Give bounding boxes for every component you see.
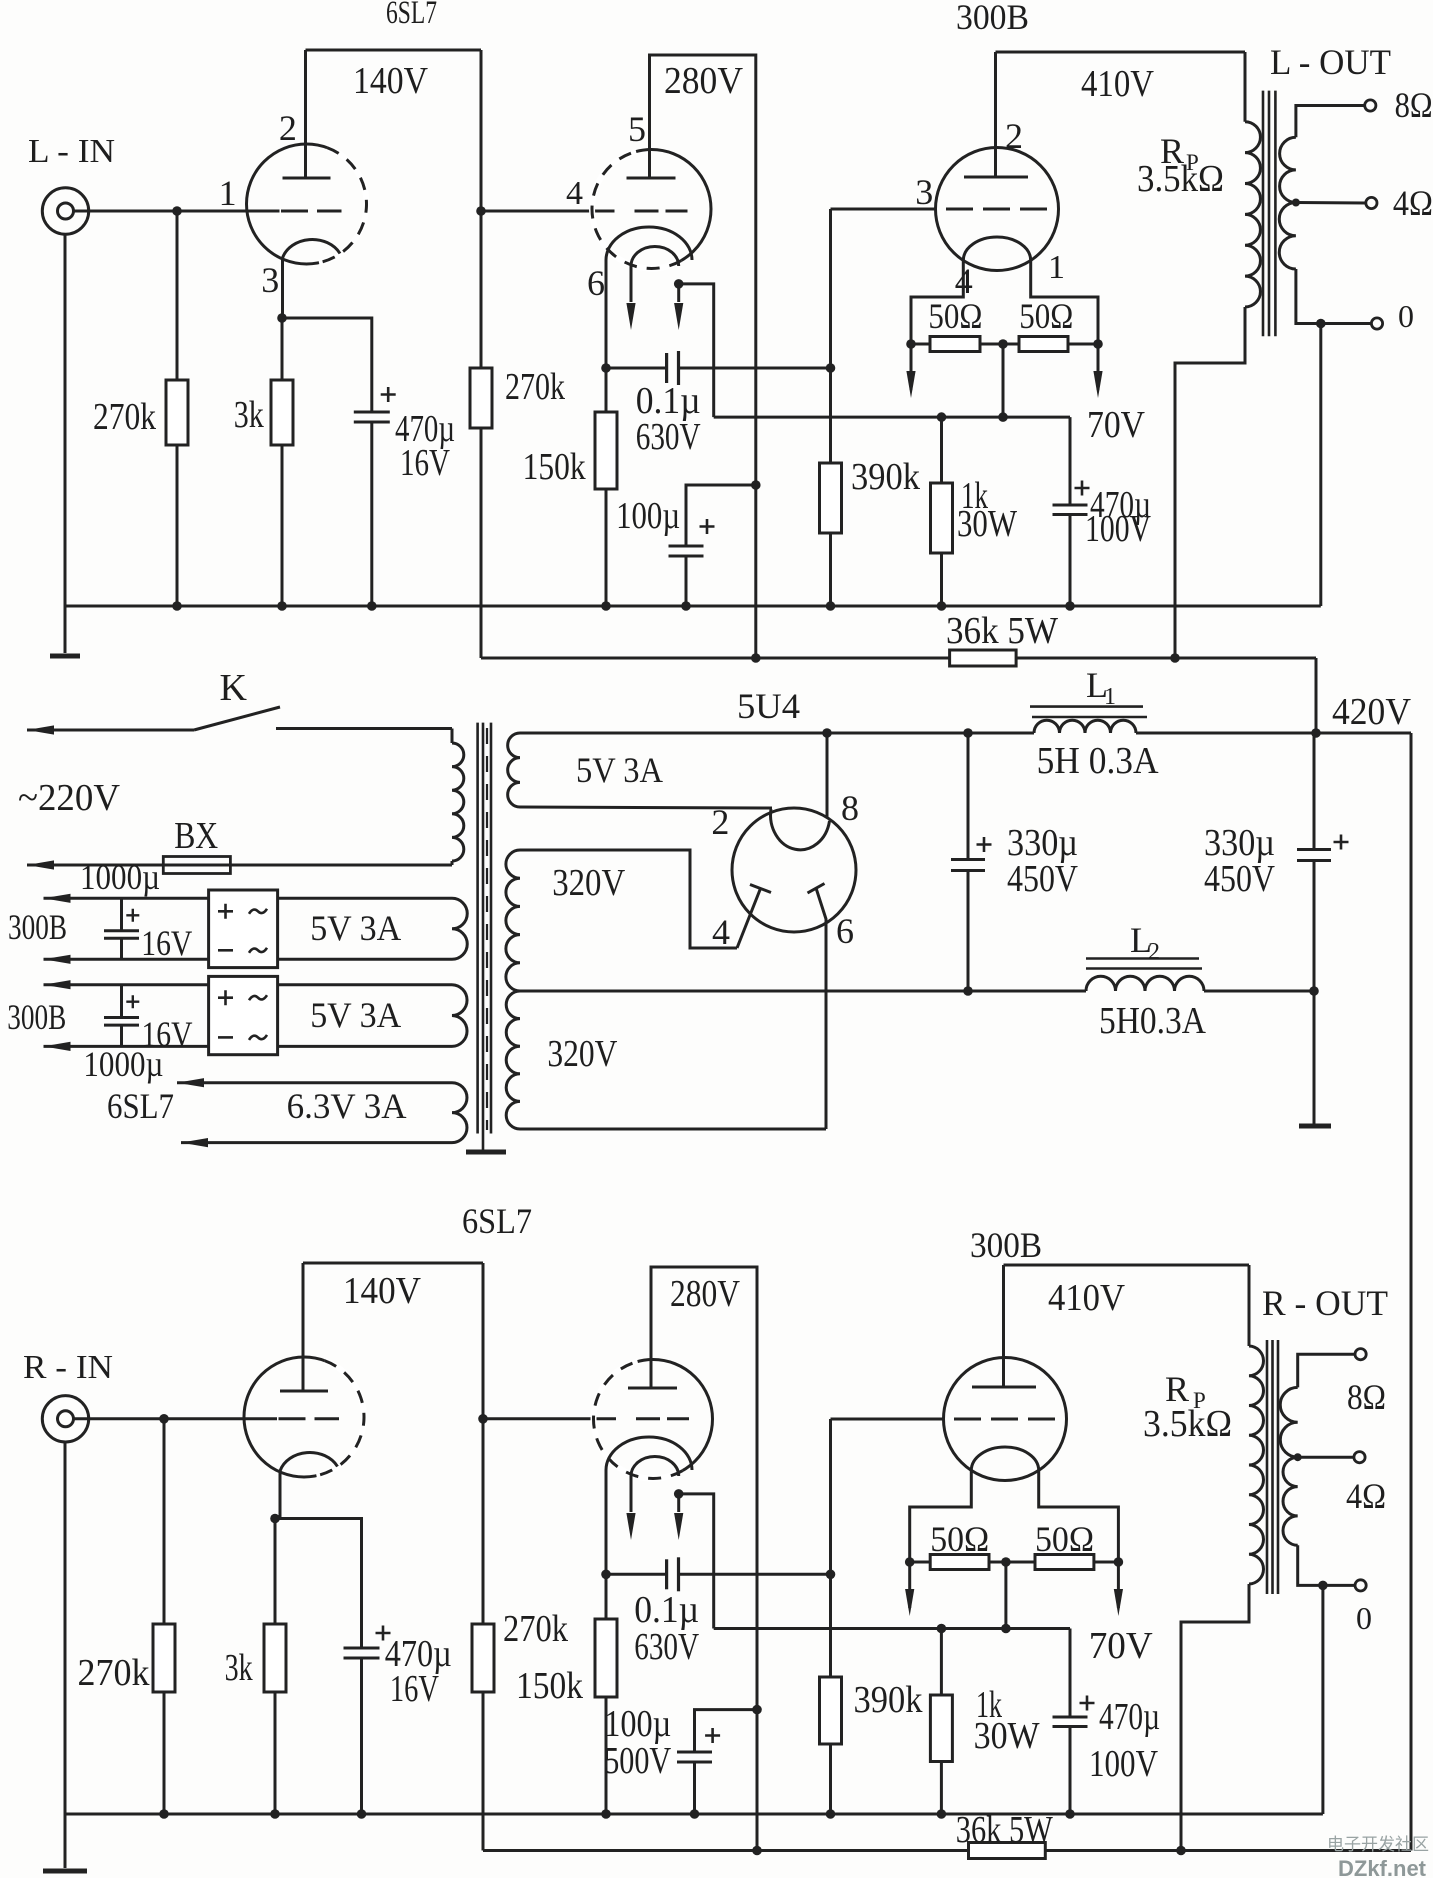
node V2 grid junction: [478, 1414, 488, 1424]
switch K: [27, 729, 194, 732]
bus junction: [690, 1809, 700, 1819]
filament supply arrow right: [1117, 1562, 1120, 1608]
bus junction: [937, 601, 947, 611]
bus junction: [172, 601, 182, 611]
svg-text:100µ: 100µ: [616, 495, 680, 537]
wire 36k rail to 420V node (L): [1315, 658, 1318, 733]
node 0.1u/grid/390k junction: [826, 1570, 836, 1580]
OPT L primary winding: [1244, 52, 1247, 122]
bus junction: [826, 1809, 836, 1819]
resistor 1k 30W R: [940, 1629, 943, 1696]
svg-text:390k: 390k: [854, 1679, 923, 1721]
triode V2 R (6SL7 b) envelope: [594, 1360, 713, 1479]
node V2 grid junction: [476, 206, 486, 216]
svg-text:70V: 70V: [1087, 404, 1145, 446]
choke L2: [1086, 976, 1204, 991]
transformer 5V 3A winding (left #1): [278, 897, 452, 900]
resistor 36k 5W dropper R: [483, 1849, 969, 1852]
svg-text:5H 0.3A: 5H 0.3A: [1037, 740, 1160, 782]
300B grid dashes: [954, 1418, 1058, 1421]
node cathode/0.1u junction: [601, 1570, 611, 1580]
svg-text:0.1µ: 0.1µ: [634, 1589, 699, 1631]
V2 plate lead to 280V rail: [651, 1267, 757, 1851]
svg-text:140V: 140V: [353, 60, 428, 102]
V1 grid dashes: [281, 210, 342, 213]
bus junction: [270, 1809, 280, 1819]
300B plate lead to 410V line: [1002, 1265, 1005, 1387]
svg-text:8Ω: 8Ω: [1395, 85, 1433, 125]
wire switch to transformer primary: [276, 727, 452, 730]
node 1k top: [937, 412, 947, 422]
bus junction: [357, 1809, 367, 1819]
wire V1 plate node to V2 grid: [483, 1417, 616, 1420]
svg-text:450V: 450V: [1007, 858, 1078, 900]
resistor 390k R: [829, 1574, 832, 1677]
rectifier bridge 1 (300B filament): [209, 890, 278, 968]
wire 4ohm tap: [1298, 1456, 1354, 1459]
svg-text:50Ω: 50Ω: [928, 296, 982, 336]
terminal 4ohm: [1366, 197, 1377, 208]
V1 plate lead to top rail: [304, 50, 307, 178]
V2 filament arrow left: [630, 1476, 633, 1512]
svg-text:3.5kΩ: 3.5kΩ: [1143, 1403, 1232, 1445]
wire ground bus to OPT 0 terminal: [1319, 324, 1322, 607]
V2 grid dashes: [635, 210, 688, 213]
svg-text:5V 3A: 5V 3A: [576, 750, 663, 790]
bus junction: [1065, 601, 1075, 611]
node cathode/0.1u junction: [601, 363, 611, 373]
svg-text:16V: 16V: [141, 923, 192, 963]
bus junction: [826, 601, 836, 611]
svg-text:5V 3A: 5V 3A: [310, 995, 401, 1035]
svg-text:36k 5W: 36k 5W: [946, 610, 1058, 652]
node 280V rail / 36k rail: [752, 1846, 762, 1856]
svg-text:L - IN: L - IN: [28, 133, 115, 170]
300B filament leg left: [910, 1470, 972, 1562]
node 50ohm left: [905, 1557, 915, 1567]
svg-text:16V: 16V: [142, 1014, 193, 1054]
HT centre tap line: [520, 990, 1086, 993]
transformer 5V 3A winding (rectifier filament): [508, 733, 520, 807]
node 50ohm left: [906, 339, 916, 349]
bus junction: [681, 601, 691, 611]
resistor 270k input R: [163, 1419, 166, 1624]
node mid/70V: [1001, 1624, 1011, 1634]
svg-text:R - OUT: R - OUT: [1262, 1283, 1388, 1323]
capacitor 0.1u 630V coupling L: [606, 367, 667, 370]
OPT R primary winding: [1248, 1265, 1251, 1346]
svg-text:150k: 150k: [516, 1665, 583, 1707]
V2 plate: [628, 1387, 677, 1390]
node mid/70V: [998, 412, 1008, 422]
svg-text:1: 1: [1048, 249, 1065, 286]
5U4 pin8 lead: [826, 733, 829, 818]
410V top wire L: [996, 51, 1246, 54]
bus junction: [367, 601, 377, 611]
V2 filament arrow right: [677, 1494, 680, 1512]
V2 cathode inner arc: [631, 1457, 679, 1477]
svg-text:270k: 270k: [78, 1652, 150, 1694]
node return / 330u-2: [1309, 986, 1319, 996]
svg-text:BX: BX: [174, 815, 218, 857]
V1 cathode lead pin3: [279, 1471, 282, 1519]
svg-text:L - OUT: L - OUT: [1270, 42, 1391, 82]
node V2 cathode-right junction: [674, 1489, 684, 1499]
node centre-tap / 330u-1: [963, 986, 973, 996]
node V2 cathode-right junction: [674, 279, 684, 289]
resistor 50ohm right L: [1019, 337, 1068, 352]
wire input jack to V1 grid: [74, 210, 280, 213]
svg-text:100V: 100V: [1085, 508, 1151, 550]
filament supply arrow left: [908, 1562, 911, 1608]
terminal 4ohm: [1354, 1452, 1365, 1463]
svg-text:16V: 16V: [390, 1668, 439, 1710]
70V line L: [714, 416, 1070, 419]
svg-text:500V: 500V: [604, 1740, 671, 1782]
transformer T1 primary winding: [451, 729, 454, 744]
svg-text:2: 2: [1005, 116, 1023, 156]
OPT L core: [1262, 91, 1265, 337]
terminal 0: [1371, 318, 1382, 329]
svg-text:0: 0: [1356, 1600, 1372, 1636]
410V top wire R: [1004, 1264, 1250, 1267]
fuse BX: [27, 864, 452, 867]
resistor 1k 30W L: [940, 417, 943, 483]
svg-text:150k: 150k: [523, 446, 586, 488]
svg-text:300B: 300B: [7, 997, 66, 1037]
svg-text:300B: 300B: [956, 0, 1029, 37]
capacitor 330u 450V #1: [967, 733, 970, 860]
rectifier tube 5U4 envelope: [732, 808, 856, 932]
V2 filament arrow right: [677, 284, 680, 302]
300B plate lead to 410V line: [994, 52, 997, 177]
transformer 320V winding upper: [506, 850, 520, 991]
svg-text:5: 5: [628, 109, 646, 149]
300B plate: [972, 1386, 1036, 1389]
wire V2 cathode to 70V line: [679, 284, 714, 417]
resistor 390k L: [829, 368, 832, 463]
V2 plate: [627, 177, 676, 180]
140V rail top wire L: [306, 49, 482, 52]
svg-text:270k: 270k: [505, 366, 565, 408]
svg-text:电子开发社区: 电子开发社区: [1327, 1835, 1429, 1854]
capacitor 470u 100V L: [1069, 417, 1072, 505]
wire 420V feed to R channel: [1410, 733, 1413, 1851]
V1 cathode arc: [283, 239, 341, 258]
svg-text:3k: 3k: [225, 1647, 253, 1689]
svg-text:16V: 16V: [400, 442, 450, 484]
svg-text:2: 2: [711, 802, 729, 842]
node 4ohm tap: [1294, 1453, 1302, 1461]
filament supply arrow right: [1097, 344, 1100, 390]
300B filament leg left: [911, 260, 963, 344]
svg-text:3: 3: [261, 260, 279, 300]
wire grid down to 0.1u node: [829, 209, 832, 368]
wire input jack to V1 grid: [74, 1417, 278, 1420]
V2 cathode outer arc: [606, 227, 692, 260]
svg-text:1000µ: 1000µ: [80, 857, 160, 897]
ground symbol L bus: [64, 606, 67, 653]
svg-text:K: K: [220, 667, 248, 709]
V1 plate: [280, 1390, 328, 1393]
svg-text:410V: 410V: [1081, 63, 1154, 105]
ground symbol transformer core: [466, 1150, 506, 1155]
wire 50ohm mid to 70V line: [1002, 344, 1005, 417]
terminal 8ohm: [1365, 100, 1376, 111]
node B+ 330u-1: [963, 728, 973, 738]
svg-text:140V: 140V: [343, 1270, 422, 1312]
svg-text:4Ω: 4Ω: [1346, 1476, 1386, 1516]
node OPT feed / 36k rail: [1170, 653, 1180, 663]
300B grid lead: [831, 1418, 944, 1421]
300B grid lead: [831, 208, 936, 211]
wire jack sleeve to ground bus: [64, 234, 67, 606]
node pin8 / B+: [822, 728, 832, 738]
wire grid down to 0.1u node: [829, 1419, 832, 1574]
transformer 320V winding lower: [506, 991, 520, 1129]
svg-text:4: 4: [566, 175, 583, 212]
svg-text:410V: 410V: [1048, 1277, 1125, 1319]
wire 4ohm tap: [1296, 201, 1366, 205]
wire rectifier 1 - output: [44, 958, 209, 961]
triode V1 R (6SL7 a) envelope: [244, 1357, 364, 1477]
ground symbol PSU right: [1313, 991, 1316, 1124]
svg-text:100µ: 100µ: [604, 1703, 671, 1745]
svg-text:1: 1: [1104, 684, 1116, 710]
svg-text:450V: 450V: [1204, 858, 1275, 900]
capacitor 330u 450V #2: [1313, 733, 1316, 850]
capacitor 470u 16V cathode R: [275, 1519, 362, 1649]
svg-text:6: 6: [587, 263, 605, 303]
transformer 6.3V 3A winding: [177, 1081, 452, 1084]
svg-text:320V: 320V: [547, 1033, 617, 1075]
5U4 anode right + pin6 lead: [808, 884, 825, 894]
svg-text:280V: 280V: [664, 60, 744, 102]
bus junction: [601, 1809, 611, 1819]
svg-text:630V: 630V: [634, 1626, 699, 1668]
OPT R secondary winding: [1298, 1354, 1355, 1387]
wire rectifier 2 - output: [44, 1045, 209, 1048]
140V rail top wire R: [303, 1262, 483, 1265]
R-IN input jack: [42, 1396, 88, 1442]
bus junction: [937, 1809, 947, 1819]
300B filament leg right: [1039, 1470, 1119, 1562]
V2 plate lead to 280V rail: [650, 55, 756, 658]
svg-text:5V 3A: 5V 3A: [310, 908, 401, 948]
svg-text:100V: 100V: [1089, 1743, 1158, 1785]
terminal 0: [1355, 1580, 1366, 1591]
node 50ohm mid: [1001, 1557, 1011, 1567]
node 280V rail / 36k rail: [751, 653, 761, 663]
svg-text:6SL7: 6SL7: [462, 1201, 532, 1241]
svg-text:420V: 420V: [1332, 691, 1412, 733]
wire rectifier 1 + output: [44, 897, 209, 900]
V2 cathode inner arc: [631, 246, 679, 266]
node 50ohm right: [1114, 1557, 1124, 1567]
svg-text:390k: 390k: [851, 456, 920, 498]
70V line R: [714, 1627, 1070, 1630]
svg-text:~220V: ~220V: [18, 777, 121, 819]
node input/270k junction: [159, 1414, 169, 1424]
svg-text:4: 4: [712, 912, 730, 952]
5U4 anode left + pin4 lead: [750, 885, 771, 893]
svg-text:6SL7: 6SL7: [107, 1086, 174, 1126]
resistor 50ohm right R: [1035, 1555, 1094, 1570]
resistor 270k plate load R: [482, 1623, 485, 1626]
transformer T1 core: [476, 723, 479, 1134]
svg-text:36k 5W: 36k 5W: [956, 1809, 1053, 1851]
V1 cathode lead pin3: [281, 258, 284, 318]
power triode 300B R envelope: [944, 1358, 1067, 1481]
triode V1 L (6SL7 a) envelope: [247, 144, 367, 264]
filament supply arrow left: [910, 344, 913, 390]
node OPT feed / 36k rail: [1176, 1846, 1186, 1856]
bus junction: [601, 601, 611, 611]
V2 cathode outer arc: [606, 1437, 692, 1470]
svg-text:5U4: 5U4: [737, 686, 800, 726]
svg-text:0: 0: [1398, 298, 1414, 334]
svg-text:470µ: 470µ: [1099, 1696, 1160, 1738]
node 0.1u/grid/390k junction: [826, 363, 836, 373]
wire 50ohm mid to 70V line: [1004, 1562, 1007, 1629]
capacitor 100u decoupling L: [686, 485, 756, 546]
resistor 270k input L: [176, 211, 179, 380]
svg-text:3k: 3k: [234, 394, 264, 436]
svg-text:4Ω: 4Ω: [1393, 183, 1433, 223]
V2 cathode lead pin6: [605, 1470, 608, 1574]
bus junction: [277, 601, 287, 611]
svg-text:30W: 30W: [974, 1715, 1040, 1757]
resistor 270k plate load L: [480, 367, 483, 370]
capacitor 0.1u 630V coupling R: [606, 1573, 667, 1576]
terminal 8ohm: [1355, 1349, 1366, 1360]
capacitor 1000u 16V #2: [120, 985, 123, 1018]
svg-text:1: 1: [219, 173, 237, 213]
L-IN input jack: [42, 188, 88, 234]
node 4ohm tap: [1292, 199, 1300, 207]
svg-text:630V: 630V: [636, 416, 701, 458]
resistor 50ohm left R: [910, 1561, 931, 1564]
svg-text:50Ω: 50Ω: [1035, 1519, 1094, 1559]
300B plate: [964, 176, 1028, 179]
svg-text:6.3V 3A: 6.3V 3A: [287, 1086, 407, 1126]
300B cathode arc: [971, 1447, 1038, 1470]
resistor 150k R: [605, 1574, 608, 1619]
svg-text:70V: 70V: [1089, 1625, 1154, 1667]
V1 grid dashes: [279, 1417, 340, 1420]
node 50ohm mid: [998, 339, 1008, 349]
V2 cathode lead pin6: [605, 260, 608, 368]
transformer 5V 3A winding (left #2): [278, 983, 452, 986]
wire V1 plate node to V2 grid: [481, 210, 615, 213]
rectifier bridge 2 (300B filament): [209, 976, 278, 1054]
ground bus R channel: [65, 1813, 1323, 1816]
ground symbol R bus: [64, 1814, 67, 1868]
OPT R core: [1266, 1340, 1269, 1594]
resistor 3k cathode R: [274, 1519, 277, 1625]
svg-text:3: 3: [915, 172, 933, 212]
svg-text:8: 8: [841, 788, 859, 828]
node 1k top: [937, 1624, 947, 1634]
wire ground bus to OPT 0 terminal: [1321, 1585, 1324, 1814]
resistor 36k 5W dropper L: [481, 657, 950, 660]
svg-text:5H0.3A: 5H0.3A: [1099, 1000, 1206, 1042]
capacitor 470u 16V cathode L: [282, 318, 372, 412]
capacitor 470u 100V R: [1069, 1629, 1072, 1718]
wire jack sleeve to ground bus: [64, 1442, 67, 1814]
svg-text:280V: 280V: [670, 1273, 740, 1315]
svg-text:270k: 270k: [503, 1608, 568, 1650]
300B filament leg right: [1031, 260, 1098, 344]
node V1 cathode junction: [277, 313, 287, 323]
wire V2 cathode to 70V line: [679, 1494, 714, 1629]
node V1 cathode junction: [270, 1514, 280, 1524]
node 0 tap / ground riser: [1316, 319, 1326, 329]
node 50ohm right: [1093, 339, 1103, 349]
ground bus L channel: [65, 605, 1321, 608]
V1 plate: [283, 177, 331, 180]
node input/270k junction: [172, 206, 182, 216]
svg-text:2: 2: [279, 108, 297, 148]
capacitor 1000u 16V #1: [120, 898, 123, 930]
300B grid dashes: [946, 208, 1050, 211]
V2 grid dashes: [636, 1417, 689, 1420]
svg-text:50Ω: 50Ω: [930, 1519, 989, 1559]
node 420V: [1311, 728, 1321, 738]
choke L1: [1034, 720, 1136, 733]
svg-text:R - IN: R - IN: [23, 1349, 113, 1386]
wire rectifier 2 + output: [44, 983, 209, 986]
OPT L secondary winding: [1296, 106, 1365, 138]
V1 cathode arc: [280, 1452, 338, 1471]
svg-text:3.5kΩ: 3.5kΩ: [1137, 158, 1224, 200]
capacitor 100u decoupling R: [695, 1710, 758, 1752]
B+ line from 5U4 to 420V node: [520, 732, 1034, 735]
svg-text:DZkf.net: DZkf.net: [1338, 1856, 1427, 1878]
300B cathode arc: [963, 237, 1030, 260]
svg-text:30W: 30W: [957, 503, 1017, 545]
svg-text:300B: 300B: [8, 907, 67, 947]
svg-text:50Ω: 50Ω: [1019, 296, 1073, 336]
triode V2 L (6SL7 b) envelope: [592, 150, 711, 269]
svg-text:320V: 320V: [552, 862, 625, 904]
svg-text:8Ω: 8Ω: [1347, 1377, 1386, 1417]
resistor 50ohm left L: [911, 343, 930, 346]
svg-text:2: 2: [1148, 939, 1160, 965]
resistor 150k L: [605, 368, 608, 412]
bus junction: [159, 1809, 169, 1819]
resistor 3k cathode L: [281, 318, 284, 380]
5U4 filament arc: [771, 809, 830, 850]
node 0 tap / ground riser: [1318, 1581, 1328, 1591]
V1 plate lead to top rail: [302, 1263, 305, 1391]
V2 filament arrow left: [630, 266, 633, 302]
bus junction: [1065, 1809, 1075, 1819]
svg-text:270k: 270k: [93, 396, 156, 438]
power triode 300B L envelope: [936, 148, 1059, 271]
svg-text:6SL7: 6SL7: [386, 0, 437, 31]
svg-text:6: 6: [836, 911, 854, 951]
svg-text:300B: 300B: [970, 1225, 1042, 1265]
